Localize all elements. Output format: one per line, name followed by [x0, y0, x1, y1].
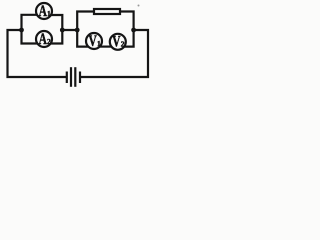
svg-text:A: A: [39, 2, 47, 19]
node junction left: [19, 28, 24, 33]
wire left bus with A1 and A2 leads: [22, 15, 38, 44]
wire right ammeter bus with A1 and A2 leads: [51, 15, 63, 44]
label A1: [39, 2, 51, 19]
node junction right: [131, 28, 136, 33]
svg-text:1: 1: [47, 9, 51, 18]
label V1: [89, 32, 102, 49]
battery plate tall right: [74, 67, 76, 87]
speckle: [138, 5, 140, 7]
ammeter A2 circle: [36, 31, 52, 47]
svg-text:A: A: [39, 30, 47, 47]
wire right bus of right section with resistor and V2 leads: [119, 12, 134, 47]
wire middle connector: [61, 29, 78, 31]
battery plate short left: [66, 72, 68, 84]
svg-text:V: V: [112, 33, 120, 50]
node junction mid-right: [75, 28, 80, 33]
svg-text:1: 1: [97, 39, 101, 48]
battery plate short right: [79, 72, 81, 84]
wire left bus of right section with resistor and V1 leads: [77, 12, 95, 47]
wire left outer loop: [8, 30, 67, 77]
voltmeter V1 circle: [86, 33, 102, 49]
battery plate tall left: [70, 67, 72, 87]
wire V1-V2 link: [100, 45, 112, 47]
wire right outer loop: [81, 30, 148, 77]
svg-text:V: V: [89, 32, 97, 49]
svg-text:2: 2: [47, 37, 51, 46]
resistor R: [94, 9, 120, 14]
label A2: [39, 30, 51, 47]
svg-text:2: 2: [121, 40, 125, 49]
ammeter A1 circle: [36, 3, 52, 19]
label V2: [112, 33, 125, 50]
voltmeter V2 circle: [110, 34, 126, 50]
node junction mid-left: [60, 28, 65, 33]
